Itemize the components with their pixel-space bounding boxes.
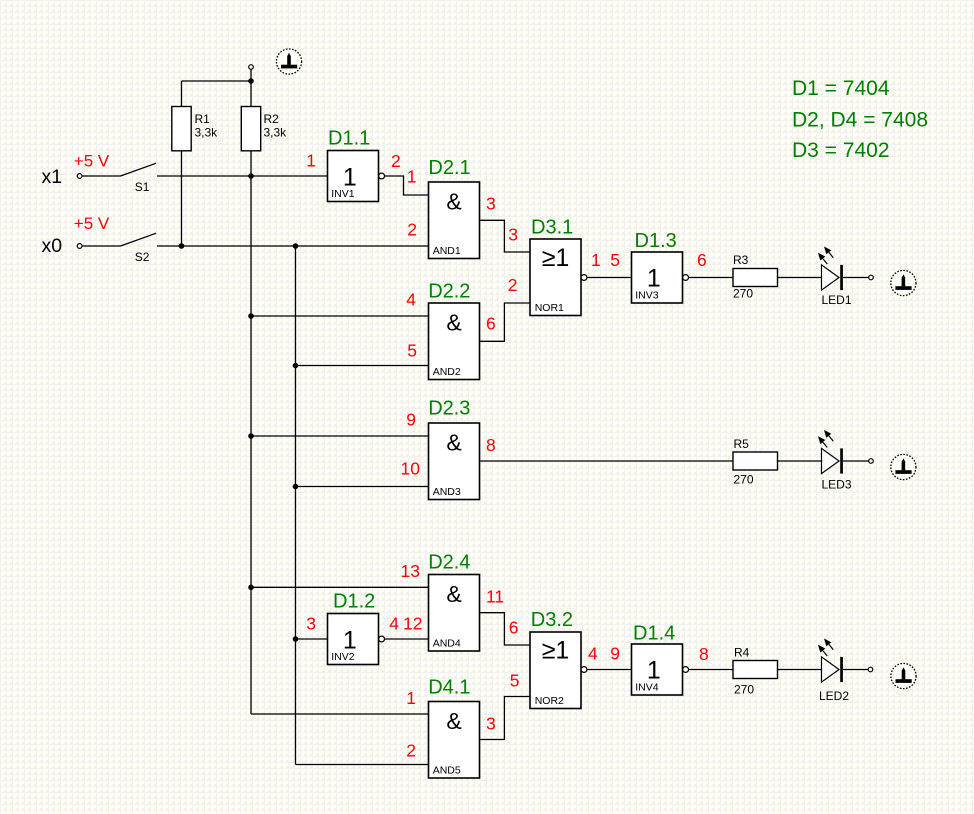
and-gate AND2 (D2.2) box (429, 303, 480, 380)
svg-text:AND3: AND3 (433, 486, 461, 498)
svg-text:5: 5 (407, 341, 417, 361)
svg-text:D3.1: D3.1 (531, 217, 573, 239)
svg-text:5: 5 (610, 250, 620, 270)
svg-text:≥1: ≥1 (542, 244, 570, 272)
svg-text:R4: R4 (734, 646, 750, 660)
node VCC terminal (top open circle) (249, 65, 254, 70)
svg-text:INV2: INV2 (331, 651, 355, 663)
resistor R1 (172, 107, 191, 151)
junction (251,436) (248, 433, 254, 439)
svg-text:R2: R2 (264, 112, 280, 126)
svg-text:3: 3 (486, 194, 496, 214)
wire NOR2 out to INV4 (587, 669, 632, 671)
wire x0 line to AND1 pin 2 (157, 245, 429, 247)
svg-text:x1: x1 (42, 166, 63, 188)
wire x0 bus tee to AND2 pin 5 (296, 365, 429, 367)
node terminal (LED1) (869, 275, 874, 280)
svg-text:AND5: AND5 (433, 765, 461, 777)
wire INV3 out to R3 (689, 277, 734, 279)
wire down to R1 top (181, 81, 183, 107)
svg-text:INV1: INV1 (331, 188, 355, 200)
svg-text:1: 1 (407, 167, 417, 187)
svg-text:D2.3: D2.3 (428, 398, 470, 420)
ground (top, near R1/R2) (276, 49, 301, 74)
wire x1 bus to AND5 pin 1 (251, 713, 429, 715)
svg-text:D2.2: D2.2 (428, 281, 470, 303)
wire R2 bottom to x1 line (250, 151, 252, 176)
svg-text:3,3k: 3,3k (264, 126, 288, 140)
inverter INV2 (D1.2) box (328, 614, 379, 665)
wire x1 vertical bus (250, 176, 252, 714)
svg-text:4: 4 (406, 290, 416, 310)
svg-text:1: 1 (406, 688, 416, 708)
inverter INV4 (D1.4) box (632, 644, 683, 695)
wire INV1 out to AND1 pin 1 (385, 176, 429, 195)
INV4 output bubble (683, 667, 689, 673)
svg-text:LED3: LED3 (822, 478, 852, 492)
wire x1 line to INV1 (157, 175, 328, 177)
svg-text:12: 12 (403, 614, 422, 634)
svg-text:270: 270 (733, 287, 753, 301)
svg-text:LED1: LED1 (822, 293, 852, 307)
svg-text:2: 2 (406, 741, 416, 761)
svg-text:5: 5 (510, 671, 520, 691)
svg-text:10: 10 (401, 459, 421, 479)
svg-text:D2.1: D2.1 (428, 157, 470, 179)
svg-text:D4.1: D4.1 (428, 677, 470, 699)
svg-text:R1: R1 (195, 112, 211, 126)
resistor R2 (241, 107, 260, 151)
svg-text:3: 3 (486, 714, 496, 734)
wire R4 to LED2 (778, 669, 822, 671)
wire R3 to LED1 (778, 277, 822, 279)
svg-text:6: 6 (509, 618, 519, 638)
svg-text:3: 3 (508, 225, 518, 245)
wire INV4 out to R4 (689, 669, 734, 671)
junction at (251,81) (248, 78, 254, 84)
inverter INV3 (D1.3) box (632, 252, 683, 303)
svg-text:13: 13 (401, 561, 420, 581)
wire x1 terminal to switch (82, 175, 120, 177)
svg-text:2: 2 (407, 220, 417, 240)
svg-text:4: 4 (389, 614, 399, 634)
wire x0 bus to AND5 pin 2 (296, 764, 429, 766)
svg-text:≥1: ≥1 (542, 637, 570, 665)
wire R1 branch horizontal at y=81 (182, 80, 252, 82)
svg-text:D2, D4 = 7408: D2, D4 = 7408 (792, 109, 928, 132)
svg-text:D1.3: D1.3 (635, 230, 677, 252)
wire terminal down to R2 top (250, 69, 252, 106)
wire AND5 out to NOR2 pin 5 (480, 697, 531, 740)
svg-text:270: 270 (734, 683, 754, 697)
node x0 terminal (77, 244, 82, 249)
svg-text:4: 4 (588, 644, 598, 664)
node terminal (LED2) (868, 667, 873, 672)
NOR2 output bubble (581, 667, 587, 673)
svg-text:NOR2: NOR2 (535, 695, 564, 707)
wire x1 bus tee to AND3 pin 9 (251, 435, 429, 437)
LED LED2 (822, 657, 840, 682)
svg-text:+5 V: +5 V (74, 152, 110, 171)
svg-text:1: 1 (591, 250, 601, 270)
svg-text:R3: R3 (733, 253, 749, 267)
wire x0 vertical bus (295, 246, 297, 765)
wire x1 bus tee to AND4 pin 13 (251, 586, 429, 588)
switch S2 blade (121, 233, 157, 246)
svg-text:6: 6 (486, 314, 496, 334)
svg-text:D1 = 7404: D1 = 7404 (792, 77, 890, 100)
svg-text:&: & (446, 189, 461, 215)
svg-text:D1.4: D1.4 (633, 623, 675, 645)
nor-gate NOR1 (D3.1) box (530, 239, 581, 316)
wire x0 bus tee to AND3 pin 10 (296, 486, 429, 488)
and-gate AND5 (D4.1) box (429, 702, 480, 779)
junction (295.5,365.5) (293, 363, 299, 369)
wire AND4 out to NOR2 pin 6 (480, 613, 531, 645)
svg-text:2: 2 (508, 275, 518, 295)
wire x1 bus to AND1... handled by x1 line; wire bus tee to AND2 pin 4 (251, 315, 429, 317)
LED LED3 (822, 448, 840, 473)
svg-text:1: 1 (306, 151, 316, 171)
inverter INV1 (D1.1) box (328, 151, 379, 202)
NOR1 output bubble (581, 275, 587, 281)
svg-text:INV3: INV3 (635, 290, 659, 302)
wire LED1 to terminal (843, 277, 869, 279)
nor-gate NOR2 (D3.2) box (530, 632, 581, 709)
node x1 terminal (77, 174, 82, 179)
wire AND3 out to R5 (480, 460, 734, 462)
svg-text:x0: x0 (42, 235, 63, 257)
junction (295.5,639) (293, 636, 299, 642)
and-gate AND4 (D2.4) box (429, 575, 480, 652)
svg-text:11: 11 (486, 587, 504, 607)
svg-text:R5: R5 (734, 437, 750, 451)
svg-text:2: 2 (391, 151, 401, 171)
INV3 output bubble (683, 275, 689, 281)
wire AND2 out to NOR1 pin 2 (480, 303, 531, 341)
junction R1/x0 at (181.5,246) (179, 243, 185, 249)
wire AND1 out to NOR1 pin 3 (480, 220, 531, 252)
svg-text:AND4: AND4 (433, 638, 461, 650)
wire NOR1 out to INV3 (587, 277, 632, 279)
junction (251,587.3) (248, 585, 254, 591)
svg-text:+5 V: +5 V (74, 214, 110, 233)
svg-text:&: & (446, 581, 461, 607)
wire R1 bottom to x0 line (181, 151, 183, 246)
wire LED3 to terminal (843, 460, 869, 462)
svg-text:1: 1 (647, 657, 661, 685)
INV2 output bubble (379, 636, 385, 642)
svg-text:3,3k: 3,3k (195, 126, 219, 140)
wire R5 to LED3 (778, 460, 822, 462)
ground (LED3) (891, 454, 916, 479)
svg-text:9: 9 (406, 410, 416, 430)
svg-text:8: 8 (486, 435, 496, 455)
svg-text:LED2: LED2 (819, 689, 849, 703)
svg-text:S2: S2 (135, 250, 150, 264)
and-gate AND3 (D2.3) box (429, 423, 480, 500)
svg-text:&: & (446, 310, 461, 336)
wire LED2 to terminal (843, 669, 868, 671)
svg-text:3: 3 (306, 614, 316, 634)
junction (295.5,486.5) (293, 484, 299, 490)
svg-text:INV4: INV4 (635, 682, 659, 694)
LED LED1 (822, 265, 840, 290)
svg-text:9: 9 (610, 644, 620, 664)
svg-text:8: 8 (699, 644, 709, 664)
node terminal (LED3) (869, 459, 874, 464)
ground (LED2) (891, 663, 916, 688)
wire x0 bus tee to INV2 input (296, 638, 328, 640)
junction (251,316) (248, 313, 254, 319)
junction x1/R2 at (251,176) (248, 173, 254, 179)
svg-text:AND1: AND1 (433, 245, 461, 257)
svg-text:1: 1 (647, 265, 661, 293)
wire x0 terminal to switch (82, 245, 120, 247)
svg-text:D3.2: D3.2 (531, 609, 573, 631)
junction x0 bus at (295.5,246) (293, 243, 299, 249)
svg-text:D1.1: D1.1 (328, 128, 370, 150)
svg-text:&: & (446, 708, 461, 734)
svg-text:NOR1: NOR1 (535, 302, 564, 314)
svg-text:D2.4: D2.4 (428, 552, 470, 574)
svg-text:S1: S1 (135, 180, 150, 194)
svg-text:&: & (446, 430, 461, 456)
switch S1 blade (121, 163, 157, 176)
wire INV2 out to AND4 pin 12 (385, 638, 429, 640)
svg-text:D3 = 7402: D3 = 7402 (792, 139, 890, 162)
svg-text:D1.2: D1.2 (333, 591, 375, 613)
and-gate AND1 (D2.1) box (429, 182, 480, 259)
INV1 output bubble (379, 173, 385, 179)
svg-text:270: 270 (734, 473, 754, 487)
svg-text:6: 6 (697, 250, 707, 270)
ground (LED1) (891, 270, 916, 295)
svg-text:AND2: AND2 (433, 366, 461, 378)
